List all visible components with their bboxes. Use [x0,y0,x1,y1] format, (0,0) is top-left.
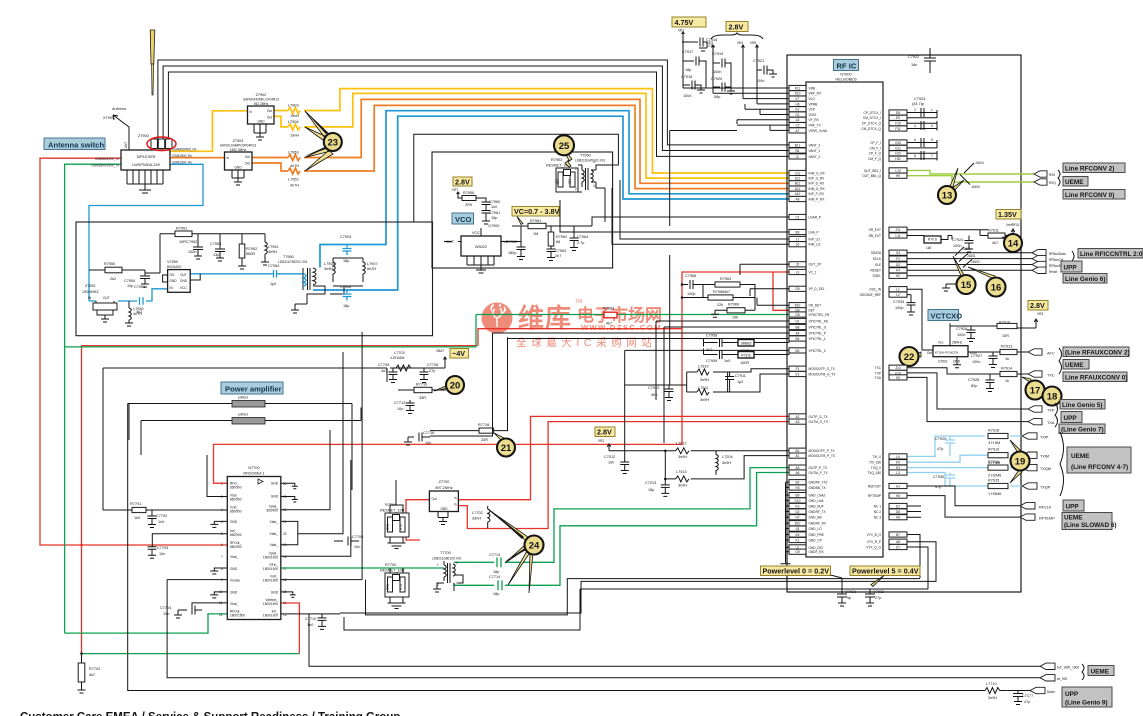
svg-text:R70: R70 [399,524,403,530]
capacitor C7927 [989,352,998,368]
svg-text:R7700: R7700 [385,563,396,567]
svg-text:L7012: L7012 [676,442,687,446]
wire pin11 Vbat [192,603,227,606]
svg-text:~4V: ~4V [452,349,465,358]
svg-text:T7950: T7950 [580,154,591,158]
bottom bus wire Mode [128,404,1030,691]
wire TXI_0 (light cyan) [907,436,1022,456]
svg-text:VDIG: VDIG [809,113,817,117]
wire GSM1800 RX+ (orange bus) [170,157,225,159]
svg-text:TXIM: TXIM [1040,455,1049,459]
ground Z7903 [232,170,244,185]
pin B8 VPICTRL_G [789,324,827,329]
svg-text:1: 1 [221,482,223,486]
svg-text:C7919: C7919 [712,52,723,56]
pin B1 MODOUTP_P_TX [789,448,835,453]
resistor R7710 [398,389,446,391]
svg-text:H4: H4 [896,494,900,498]
svg-text:3: 3 [931,124,933,128]
svg-text:R7916: R7916 [988,460,999,464]
callout 19 pointers [1010,440,1022,483]
svg-text:OUT_CP: OUT_CP [809,263,822,267]
svg-text:Line RFCONV 2): Line RFCONV 2) [1065,166,1114,173]
pin L11 RB_EXT [869,233,907,238]
pin D7 VTX_Q_G [866,544,907,549]
wire green VPDCTRL (to RF IC) [476,314,789,316]
wire B4 row from PA [508,338,790,340]
port Mode [1030,687,1045,693]
resistor R7952 [238,234,246,269]
svg-text:B9: B9 [796,494,800,498]
svg-text:15: 15 [961,280,972,291]
label 2.8V [453,177,472,186]
svg-text:C7716: C7716 [423,431,434,435]
svg-text:Powerlevel 0 = 0.2V: Powerlevel 0 = 0.2V [763,567,830,576]
node J1601 [959,254,968,262]
label 1.35V [996,210,1021,220]
pin F11 CM_DTCX_Q [861,126,907,131]
pin F10 CP_DTCX_Q [862,121,907,126]
svg-text:J1602: J1602 [971,260,980,264]
wire GSM1800 RX- (orange bus) [252,163,288,171]
svg-text:R7961: R7961 [530,219,541,223]
svg-text:RX0: RX0 [1049,173,1055,177]
svg-text:C7920: C7920 [711,77,722,81]
svg-text:Z7951: Z7951 [85,284,96,288]
svg-text:16n: 16n [911,63,917,67]
capacitor C7706 [420,368,429,383]
svg-text:VLO: VLO [809,97,816,101]
svg-text:W5022: W5022 [475,245,487,249]
inductor L7911 [697,389,709,395]
resistor R7916 [988,465,1008,470]
svg-text:C7928: C7928 [968,378,979,382]
svg-text:wf_900: wf_900 [1057,677,1068,681]
svg-text:GND: GND [230,520,238,524]
section box [76,222,433,336]
svg-text:RESNET_10R: RESNET_10R [380,509,405,513]
label Line RFAUXCONV 2 [1063,347,1129,357]
svg-text:T7960: T7960 [283,255,294,259]
svg-text:F2: F2 [896,257,900,261]
pin K3 TXQ_0 [871,465,907,470]
svg-text:19: 19 [1015,457,1026,468]
inductor L7710 [985,688,1008,694]
svg-text:V7950: V7950 [167,260,178,264]
svg-text:1μ2: 1μ2 [737,380,743,384]
svg-text:C7703: C7703 [157,546,168,550]
label UPP [1063,500,1084,511]
label UEME [1088,666,1114,676]
svg-text:UEME: UEME [1065,179,1084,186]
svg-text:A10: A10 [795,192,801,196]
inductor L7951 [261,234,269,265]
wire pin2 Vbat [207,455,227,497]
svg-text:C7924: C7924 [952,238,963,242]
callout 13 pointer [950,168,964,191]
svg-text:22: 22 [904,352,915,363]
svg-text:33R: 33R [419,396,426,400]
svg-text:18p: 18p [685,68,691,72]
svg-text:Line RFICCNTRL 2:0): Line RFICCNTRL 2:0) [1080,251,1143,258]
svg-text:D2: D2 [795,510,799,514]
capacitor C7929 [945,436,955,456]
svg-text:L7951: L7951 [268,245,279,249]
svg-text:43R: 43R [568,178,572,185]
resistor R7316 [738,352,754,359]
pin K6 GND_PRE [786,532,824,537]
label Line Genio 5 [1060,400,1105,410]
pin J11 VR_EXT [869,227,907,232]
bottom bus wire wf_900 [167,580,1040,678]
label Line RFAUXCONV 0 [1063,372,1127,382]
svg-text:L7953: L7953 [288,151,299,155]
svg-text:GND: GND [230,567,238,571]
svg-text:A7: A7 [796,129,800,133]
capacitor C7963 [547,249,556,261]
svg-text:L7013: L7013 [676,470,687,474]
callout 23 pointers [305,111,333,171]
svg-text:K11: K11 [795,86,801,90]
svg-text:C7961: C7961 [489,211,500,215]
capacitor C7916 [693,38,707,52]
svg-text:B4: B4 [796,337,800,341]
pin E1 MODOUTM_G_TX [789,371,836,376]
inductor L7908 [333,258,335,282]
svg-text:24: 24 [283,482,287,486]
capacitor C7013 [661,479,670,497]
svg-text:L7952: L7952 [288,178,299,182]
svg-text:C7960: C7960 [489,200,500,204]
svg-text:TXQP: TXQP [1040,486,1051,490]
section box [432,152,613,268]
svg-text:1n0: 1n0 [724,359,730,363]
svg-text:GND: GND [440,507,448,511]
N7700 right pin labels [263,482,279,618]
resistor R7950 [89,270,145,276]
svg-text:D8: D8 [795,313,799,317]
pin K1 GND_CP [786,537,822,542]
capacitor C7950 [140,276,150,287]
svg-text:100n: 100n [713,70,721,74]
label 2.8V [1028,301,1048,311]
pin B11 INP_D_RX [789,181,825,186]
svg-text:R7913: R7913 [1001,345,1012,349]
pin G2 SLE [875,262,907,267]
N7700 pin numbers [219,482,287,617]
wire VTX_R_P [340,542,936,613]
svg-text:E9: E9 [896,116,900,120]
svg-text:D9: D9 [795,287,799,291]
svg-text:56p: 56p [714,95,720,99]
wire GSM850/900 RX- (yellow bus) [274,116,288,127]
svg-text:Vbat_: Vbat_ [270,520,279,524]
svg-text:C7906: C7906 [340,285,351,289]
pin D6 NC 2 [874,509,907,514]
port RX0 [1034,171,1047,177]
svg-text:VTX_B_G: VTX_B_G [867,533,882,537]
resistor R7010 [924,236,941,243]
wire VC node [501,226,521,247]
svg-text:43R: 43R [556,178,560,185]
svg-text:R7710: R7710 [416,383,427,387]
pin B9 GND_LNA2 [786,493,826,498]
svg-text:1k0: 1k0 [134,516,140,520]
svg-text:2: 2 [575,187,577,191]
resistor R7011 [988,233,1005,238]
svg-text:GND_CP: GND_CP [809,538,822,542]
pin D1 VPICTRL_FB [789,318,828,323]
svg-text:KT20A-PCWQ7N: KT20A-PCWQ7N [935,350,958,354]
svg-text:A5: A5 [796,466,800,470]
svg-text:Line Genio 6): Line Genio 6) [1065,276,1105,283]
wire VR_EXT [907,229,988,231]
callout 24 pointers [489,510,533,593]
svg-text:OUT_BB1_Q: OUT_BB1_Q [862,174,881,178]
svg-text:3n9H: 3n9H [988,696,997,700]
svg-text:Antenna: Antenna [112,107,127,111]
svg-text:10n: 10n [159,552,165,556]
callout 23 [324,133,342,151]
svg-text:C7951: C7951 [134,285,145,289]
svg-text:VR_DET: VR_DET [809,304,822,308]
svg-text:H9: H9 [896,174,900,178]
svg-text:5: 5 [931,138,933,142]
svg-text:VF_RX: VF_RX [809,118,820,122]
svg-text:J2: J2 [796,263,800,267]
callout 22 [900,347,919,366]
pin K10 TXP [875,370,907,375]
svg-text:8n2H: 8n2H [367,267,376,271]
svg-text:R70 D: R70 D [928,238,938,242]
pin G1 VDIG [789,112,817,117]
svg-text:UPP: UPP [1064,265,1078,272]
svg-text:C7958: C7958 [706,334,717,338]
svg-text:10R: 10R [1002,334,1009,338]
svg-text:C7962: C7962 [506,240,517,244]
svg-text:I2: I2 [796,155,799,159]
svg-text:VR3: VR3 [1037,312,1043,316]
svg-text:GSM1800/1900_Tx: GSM1800/1900_Tx [91,164,119,168]
port RFCLK [1020,503,1035,509]
wire VP_D_SEL stub [750,289,789,296]
svg-text:Out: Out [927,351,932,355]
pin L7 INP_LO [789,236,820,241]
svg-text:RFTEMP: RFTEMP [1039,517,1055,521]
svg-text:SDATA: SDATA [871,251,882,255]
svg-text:SAFEK942MFLCF04R13: SAFEK942MFLCF04R13 [243,98,279,102]
wires VCO to RF IC [592,217,789,226]
svg-text:VANT_2: VANT_2 [809,155,821,159]
pin G4 SDATA [871,250,907,255]
svg-text:1: 1 [437,563,439,567]
SAW filter Z7902 [248,106,275,124]
svg-text:C7923: C7923 [914,97,925,101]
port RFTEMP [1020,514,1035,520]
label VC=0.7 - 3.8V [512,207,559,217]
wire red OUTP_G_TX [458,416,789,499]
svg-text:1 H3M6: 1 H3M6 [988,492,1001,496]
svg-text:VR_EXT: VR_EXT [869,228,881,232]
svg-text:LNAR_P: LNAR_P [809,215,821,219]
svg-text:L3: L3 [796,270,800,274]
svg-text:L1: L1 [896,288,900,292]
pin L1 OSC_IN [869,287,907,292]
svg-text:C7959: C7959 [706,359,717,363]
svg-text:G10: G10 [895,141,901,145]
svg-text:25: 25 [559,141,570,152]
svg-text:100p: 100p [895,306,903,310]
pin L2 OSCBUF_REF [860,292,907,297]
callout 20 [446,376,464,394]
svg-text:L7910: L7910 [698,365,709,369]
pin A10 INP_P_RX [789,191,825,196]
wire VPAR drop [670,125,770,385]
svg-text:VPAR_VLNA: VPAR_VLNA [809,129,828,133]
bottom bus wire buf_1800_1900 [309,614,1040,666]
svg-text:22k: 22k [717,303,723,307]
svg-text:2 H2M6: 2 H2M6 [988,473,1001,477]
pin K9 TXA [875,375,907,380]
label Line Genio 7 [1059,424,1105,434]
capacitor C7924 [965,236,974,253]
pin D11 INP_G_RX [789,176,825,181]
svg-text:R7016: R7016 [999,321,1010,325]
node J1604 [964,163,974,173]
svg-text:C7918: C7918 [681,75,692,79]
pin L6 INM_LO [789,242,821,247]
svg-text:27p: 27p [875,596,881,600]
op-amp U1 inner IC body [806,82,883,557]
svg-text:D7: D7 [896,545,900,549]
pin H4 RFTEMP [868,493,907,498]
svg-text:B11: B11 [795,143,801,147]
wire GSM1800/1900_Tx (green) [65,164,170,633]
capacitor C7962 [517,247,526,260]
svg-text:1k: 1k [1005,357,1009,361]
svg-text:J1600: J1600 [962,247,971,251]
capacitor C7705 [389,368,398,383]
svg-text:TXQ_0: TXQ_0 [871,466,881,470]
port RXQ [1034,179,1047,185]
supply wires to RF IC [683,88,789,130]
svg-text:RESNET_10R: RESNET_10R [380,569,405,573]
wire pin9 Vmode [167,579,227,581]
wire VTX feedback mid [344,589,928,630]
capacitor C7928 [986,374,995,392]
svg-text:Line Genio 5): Line Genio 5) [1062,402,1102,409]
wire red DET branch [773,272,789,310]
svg-text:4: 4 [914,124,916,128]
svg-text:UPP: UPP [1066,504,1080,511]
resistor R7919 [988,453,1008,458]
svg-text:33R: 33R [481,438,488,442]
capacitor C7956 [682,280,703,298]
capacitor C7906 [343,290,352,301]
pin B7 VTX_B_G [867,532,907,537]
port wf_900 [1040,675,1055,681]
inductor L7903 [288,108,300,114]
pin C2 VRF_TX [789,123,822,128]
capacitor C7933 [907,300,916,315]
svg-text:CP_F_I: CP_F_I [870,141,881,145]
wire V7950 bias [145,234,200,282]
svg-text:GSM1900_Rx: GSM1900_Rx [172,161,192,165]
callout 21 [497,439,515,457]
capacitor C7911 [725,372,734,392]
label UEME [1063,177,1088,187]
svg-text:INM_P_RX: INM_P_RX [809,197,826,201]
svg-text:INP_LO: INP_LO [809,237,821,241]
capacitor C7922 [924,48,936,73]
svg-text:19nH: 19nH [290,134,299,138]
svg-text:VC=0.7 - 3.8V: VC=0.7 - 3.8V [514,207,560,216]
svg-text:VR3: VR3 [707,41,713,45]
svg-text:UEME: UEME [1071,453,1090,460]
svg-text:printed: printed [238,396,248,400]
resistor R7963 [703,285,755,298]
svg-text:14: 14 [1008,239,1019,250]
svg-text:C7964: C7964 [577,235,588,239]
label UPP / Line Genio 9 [1062,687,1112,707]
svg-text:TXC: TXC [875,366,882,370]
svg-text:A2: A2 [796,415,800,419]
callout 16 pointer [968,267,995,279]
svg-text:C7917: C7917 [682,50,693,54]
svg-text:1800/1900: 1800/1900 [263,556,278,560]
svg-text:82p: 82p [971,384,977,388]
svg-text:Customer Care EMEA / Service &: Customer Care EMEA / Service & Support R… [20,712,400,716]
svg-text:R7702: R7702 [89,667,100,671]
svg-text:13p: 13p [213,253,219,257]
svg-text:SMBB3: SMBB3 [741,341,752,345]
svg-text:C7704: C7704 [160,606,171,610]
svg-text:K7: K7 [796,97,800,101]
callout 22 pointer [916,352,921,357]
svg-text:MODOUTP_G_TX: MODOUTP_G_TX [809,367,836,371]
pin H10 CP_F_Q [869,151,907,156]
svg-text:VPICTRL_3: VPICTRL_3 [809,349,826,353]
svg-text:VPICTRL_P: VPICTRL_P [809,331,826,335]
label Line RFCONV 2 [1063,163,1125,173]
pin A8 VTX_R_P [867,539,907,544]
resistor R7951 [160,233,265,235]
svg-text:UEME: UEME [1091,669,1110,676]
label Powerlevel 0 = 0.2V [761,566,831,576]
svg-text:H6: H6 [795,102,799,106]
resistor R7966 [682,297,755,299]
callout 14 pointer [1002,237,1011,242]
resistor SMBB3 [738,340,754,347]
svg-text:CP_DTCX_I: CP_DTCX_I [863,111,881,115]
resistor R7956 [458,196,462,198]
svg-text:GSM1800_Rx: GSM1800_Rx [172,154,192,158]
svg-text:12: 12 [219,613,223,617]
inductor L7703 [396,365,411,371]
svg-text:C7911: C7911 [735,374,746,378]
wire green PA rfin 1800 [281,567,444,569]
svg-text:VCO: VCO [455,215,472,224]
svg-text:INP_D_RX: INP_D_RX [809,182,825,186]
port TXQM [1022,464,1037,470]
svg-text:C7013: C7013 [645,481,656,485]
capacitor C7926 [967,326,976,342]
svg-text:2k2: 2k2 [110,277,116,281]
svg-text:27p: 27p [429,369,435,373]
svg-text:1n0: 1n0 [307,623,313,627]
svg-text:GND_LNA2: GND_LNA2 [809,494,826,498]
svg-text:UPP: UPP [1064,415,1078,422]
